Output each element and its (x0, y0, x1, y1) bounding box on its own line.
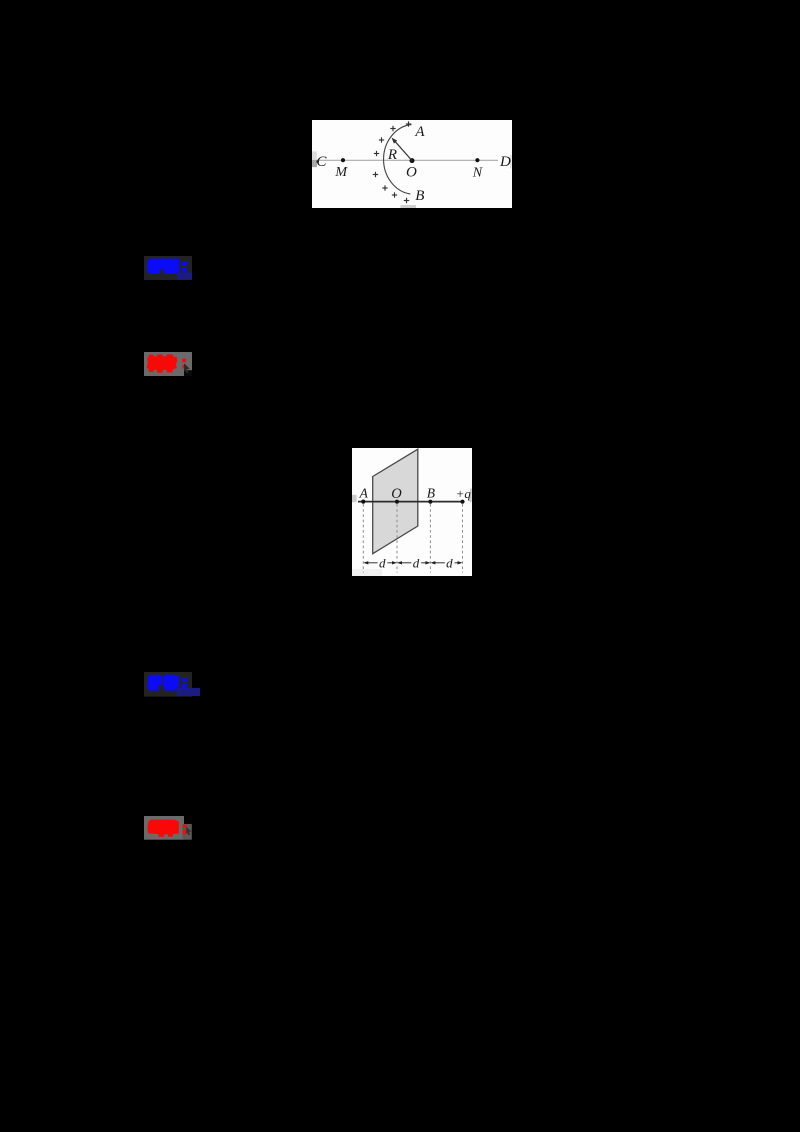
colon (182, 678, 188, 682)
dimension segment O-B (399, 562, 429, 564)
right edge light line (510, 155, 511, 169)
plus charge 1 (406, 121, 411, 126)
svg-text:d: d (413, 555, 420, 570)
bottom-left faint smudge (352, 569, 382, 576)
red colon (183, 825, 187, 829)
red glyph blob (147, 820, 179, 837)
svg-text:B: B (415, 188, 424, 204)
navy selection block (177, 688, 201, 696)
wire: main axis line (358, 501, 464, 503)
grey backing main (144, 816, 184, 840)
red colon (182, 359, 186, 363)
charged arc (left semicircle about O) (384, 125, 412, 195)
dashed guide at B (429, 504, 431, 573)
glyph blob 2 (163, 674, 179, 691)
dashed guide at A (362, 504, 364, 573)
grey backing right (182, 824, 191, 840)
left edge grey tab (light) (312, 152, 317, 160)
bottom grey smudge (401, 205, 417, 208)
dashed guide at +q (462, 504, 464, 573)
black corner block (184, 370, 192, 376)
mouse cursor (184, 363, 190, 373)
svg-text:N: N (472, 165, 483, 180)
figure 1 white panel: charged arc on line CD (312, 120, 512, 208)
point O (center) (410, 158, 415, 163)
answer label 2 (blue) (144, 672, 201, 697)
dimension segment B-q (432, 562, 461, 564)
figure 2 white panel: charged plane with points A O B +q (352, 448, 472, 576)
point A (361, 500, 365, 504)
node near C (316, 160, 319, 163)
svg-text:+q: +q (456, 486, 472, 501)
svg-text:O: O (406, 165, 417, 181)
svg-text:C: C (316, 154, 327, 170)
point B (428, 500, 432, 504)
red glyph blob (147, 354, 178, 372)
plus charge 5 (373, 172, 378, 177)
point M (341, 158, 345, 162)
answer label 1 (blue) (144, 256, 192, 280)
analysis label 1 (red, with cursor) (144, 352, 192, 376)
plus charge 4 (374, 151, 379, 156)
svg-text:A: A (359, 486, 369, 501)
colon (181, 262, 187, 266)
svg-text:B: B (427, 486, 435, 501)
svg-text:R: R (387, 147, 397, 163)
glyph blob (147, 259, 180, 274)
dark grey backing (144, 672, 192, 697)
plus charge 6 (382, 185, 387, 190)
plus charge 3 (379, 137, 384, 142)
plus charge 7 (392, 192, 397, 197)
svg-text:A: A (414, 124, 425, 140)
navy selection block (177, 272, 192, 279)
mouse cursor (186, 827, 191, 835)
point O (395, 500, 399, 504)
svg-text:d: d (446, 555, 453, 570)
caret after +q (470, 489, 471, 503)
svg-text:d: d (379, 555, 386, 570)
dashed guide at O (396, 504, 398, 573)
analysis label 2 (red, with cursor) (144, 816, 192, 840)
radius arrow R from O to arc (394, 140, 412, 161)
svg-text:M: M (334, 165, 348, 180)
left edge grey tab (352, 495, 357, 502)
wire: line C to D (317, 159, 499, 161)
point N (475, 158, 479, 162)
point +q (460, 500, 464, 504)
svg-text:D: D (499, 154, 511, 170)
svg-text:O: O (391, 486, 402, 502)
dimension segment A-O (365, 562, 395, 564)
glyph blob 1 (147, 674, 162, 690)
charged plane (parallelogram) (373, 449, 418, 554)
plus charge 8 (404, 198, 409, 203)
plus charge 2 (390, 126, 395, 131)
left edge grey tab (dark) (312, 160, 317, 167)
